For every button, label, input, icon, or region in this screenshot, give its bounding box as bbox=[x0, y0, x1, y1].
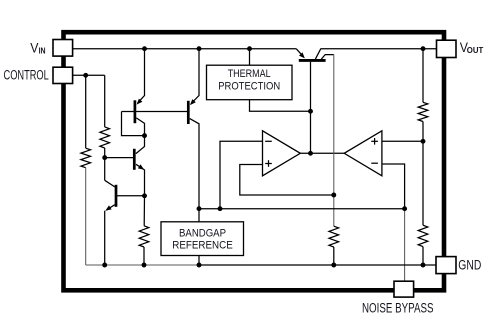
IC boundary box bbox=[64, 32, 445, 290]
Q5 emitter arrow bbox=[299, 52, 305, 58]
pin VIN bbox=[30, 40, 72, 57]
resistor R4 bbox=[329, 226, 339, 247]
wire A2 noninverting input to divider tap bbox=[382, 140, 423, 142]
wire A2 inverting input to noise bypass node bbox=[382, 164, 405, 209]
wire ground rail right segment to GND pin bbox=[199, 264, 436, 266]
thermal protection block bbox=[207, 65, 293, 100]
op-amp A2 error amplifier bbox=[344, 131, 382, 176]
wire Q1 emitter from VIN rail bbox=[138, 49, 145, 103]
wire A1 inverting input from bandgap line bbox=[220, 141, 263, 208]
wire A1 noninverting input from sense node bbox=[240, 165, 334, 196]
resistor R6 bbox=[418, 225, 428, 246]
wire R5 to divider tap bbox=[422, 122, 424, 142]
pin VOUT bbox=[437, 40, 484, 58]
pin NOISE BYPASS bbox=[362, 281, 434, 315]
wire bandgap top to node E bbox=[198, 209, 200, 222]
resistor R1 bbox=[81, 148, 91, 168]
wire bandgap output bus to noise bypass bbox=[199, 208, 405, 210]
wire noise bypass node down to pin bbox=[404, 209, 406, 282]
wire node F down to R4 bbox=[333, 195, 335, 226]
Q1 emitter arrow bbox=[137, 99, 143, 105]
wire Q3 emitter bbox=[136, 164, 145, 196]
svg-text:OUT: OUT bbox=[467, 45, 484, 55]
wire control branch down x=104.7 bbox=[104, 75, 106, 127]
wire Q2 collector down to bandgap node bbox=[190, 119, 199, 209]
wire thermal top to VIN rail bbox=[249, 49, 251, 65]
wire Q5 second collector to sense line bbox=[321, 55, 334, 60]
Q4 emitter arrow bbox=[105, 205, 111, 210]
wire A1 output line to A2 bbox=[300, 152, 344, 154]
transistor Q3 (NPN) base bar bbox=[133, 149, 136, 170]
transistor Q2 (PNP) base bar bbox=[187, 101, 190, 124]
svg-text:BANDGAP: BANDGAP bbox=[179, 227, 226, 239]
wire R6 to ground rail bbox=[422, 247, 424, 265]
wire ground rail left segment bbox=[86, 264, 199, 266]
svg-text:IN: IN bbox=[39, 46, 46, 56]
wire R2 to node B bbox=[104, 148, 106, 158]
Q3 emitter arrow bbox=[138, 164, 144, 169]
svg-text:GND: GND bbox=[458, 258, 481, 273]
wire node B down to Q4 collector bbox=[104, 158, 106, 181]
wire Q3 collector from node C bbox=[136, 136, 145, 154]
wire Q1 collector bbox=[136, 118, 144, 136]
transistor Q1 (PNP) base bar bbox=[134, 100, 137, 123]
svg-text:REFERENCE: REFERENCE bbox=[172, 240, 233, 252]
wire VOUT rail right segment bbox=[321, 48, 437, 50]
pin CONTROL bbox=[4, 67, 73, 83]
wire bandgap bottom to ground rail bbox=[198, 256, 200, 266]
wire control branch down x=85.7 bbox=[85, 75, 87, 148]
wire Q5 collector diagonal to VOUT rail bbox=[315, 49, 320, 59]
wire R4 to ground rail bbox=[333, 247, 335, 265]
wire Q4 emitter bbox=[106, 205, 115, 210]
wire Q5 sense collector down to node F bbox=[333, 55, 335, 195]
wire Q4 collector diagonal bbox=[105, 180, 115, 187]
wire VIN rail left segment bbox=[73, 48, 297, 50]
wire Q4 emitter to ground rail bbox=[104, 211, 106, 265]
wire divider tap down to R6 bbox=[422, 141, 424, 225]
wire Q3 base to node B bbox=[105, 157, 134, 159]
resistor R2 bbox=[100, 127, 110, 148]
bandgap reference block bbox=[161, 222, 244, 256]
svg-text:THERMAL: THERMAL bbox=[228, 68, 271, 80]
wire Q5 emitter diagonal from VIN rail bbox=[296, 49, 303, 57]
pin GND bbox=[436, 257, 481, 274]
wire Q5 base down to drive node bbox=[310, 62, 312, 154]
transistor Q4 (NPN) base bar bbox=[115, 185, 118, 207]
wire Q1-Q2 shared base bbox=[122, 111, 188, 113]
wire Q2 emitter from VIN rail bbox=[191, 49, 199, 104]
Q2 emitter arrow bbox=[190, 99, 196, 105]
wire CONTROL to bias node bbox=[73, 74, 105, 76]
wire VOUT rail down to R5 bbox=[422, 49, 424, 103]
svg-text:PROTECTION: PROTECTION bbox=[218, 80, 280, 92]
wire Q4 base to node D bbox=[116, 195, 145, 197]
svg-text:NOISE BYPASS: NOISE BYPASS bbox=[362, 301, 434, 316]
wire node D down to R3 bbox=[143, 196, 145, 226]
op-amp A1 driver bbox=[263, 131, 301, 176]
wire R3 to ground rail bbox=[143, 247, 145, 265]
resistor R3 bbox=[139, 226, 149, 247]
wire thermal output to Q5 base node bbox=[250, 100, 311, 112]
wire R1 to ground rail bbox=[85, 168, 87, 265]
svg-text:V: V bbox=[30, 40, 38, 55]
svg-text:CONTROL: CONTROL bbox=[4, 67, 50, 82]
resistor R5 bbox=[418, 102, 428, 121]
wire Q1 base tie loop to node C bbox=[122, 112, 145, 136]
transistor Q5 pass PNP base bar bbox=[299, 59, 326, 62]
